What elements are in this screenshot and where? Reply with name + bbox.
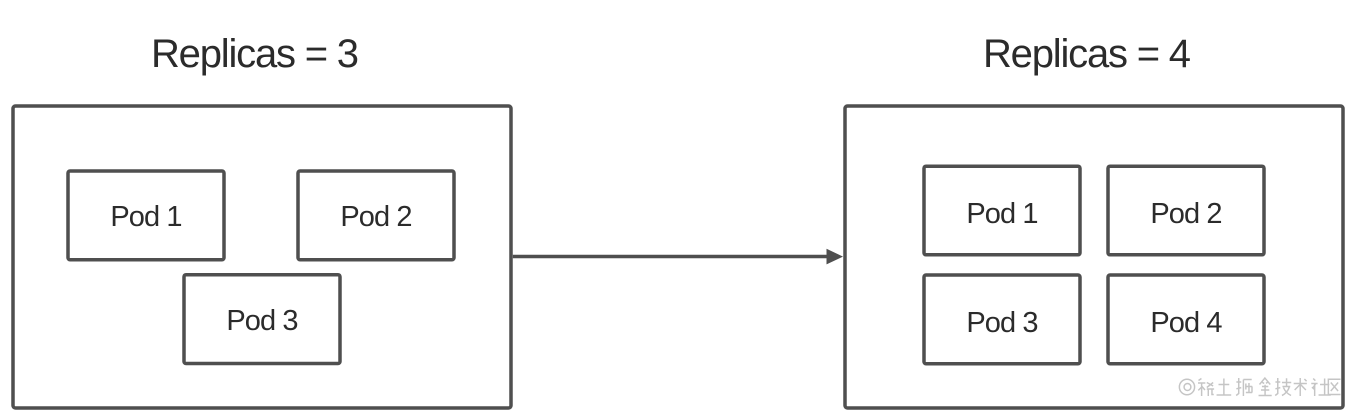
pod box Pod 3 (left) outline	[184, 275, 340, 364]
pod box Pod 2 (right) outline	[1108, 166, 1264, 255]
@ glyph	[1179, 379, 1194, 395]
title "Replicas = 3"	[151, 34, 358, 74]
glyph 社	[1311, 379, 1331, 397]
title "Replicas = 4"	[983, 34, 1190, 74]
pod box Pod 2 (left) outline	[298, 171, 454, 260]
pod box Pod 4 (right) outline	[1108, 275, 1264, 364]
glyph 技	[1275, 378, 1291, 396]
container box right (Replicas = 4)	[845, 106, 1343, 408]
glyph 稀	[1198, 379, 1214, 397]
arrow shaft from left box to right box	[513, 255, 829, 259]
pod label Pod 1 (right)	[923, 165, 1082, 257]
pod label Pod 1 (left)	[67, 170, 226, 262]
glyph 土	[1217, 379, 1232, 396]
glyph 区	[1328, 379, 1340, 394]
watermark "@稀土掘金技术社区" (drawn as SVG strokes)	[1178, 374, 1342, 402]
glyph 金	[1259, 378, 1272, 396]
arrowhead	[827, 249, 844, 265]
pod box Pod 1 (right) outline	[924, 166, 1080, 255]
pod label Pod 2 (right)	[1107, 165, 1266, 257]
pod label Pod 3 (right)	[923, 274, 1082, 366]
pod label Pod 4 (right)	[1107, 274, 1266, 366]
pod label Pod 2 (left)	[297, 170, 456, 262]
container box left (Replicas = 3)	[13, 106, 511, 408]
pod box Pod 3 (right) outline	[924, 275, 1080, 364]
glyph 掘	[1236, 378, 1252, 396]
pod box Pod 1 (left) outline	[68, 171, 224, 260]
glyph 术	[1294, 378, 1307, 396]
pod label Pod 3 (left)	[183, 273, 342, 365]
